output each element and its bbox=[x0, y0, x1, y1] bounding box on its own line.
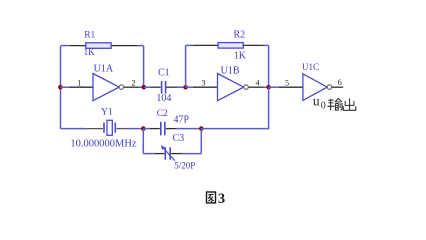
wire C2 left bbox=[143, 128, 160, 130]
op-amp U1A inverter bbox=[93, 74, 124, 101]
node C2 C3 right junction bbox=[199, 126, 204, 131]
svg-text:C3: C3 bbox=[173, 133, 185, 144]
svg-text:2: 2 bbox=[132, 79, 136, 88]
wire R1 top row bbox=[61, 45, 144, 47]
capacitor C1 bbox=[162, 81, 166, 94]
svg-text:5: 5 bbox=[285, 79, 289, 88]
svg-text:1K: 1K bbox=[234, 50, 247, 61]
wire feedback to U1B output bbox=[201, 87, 268, 128]
svg-text:C1: C1 bbox=[158, 68, 170, 79]
wire C3 bottom right bbox=[171, 153, 201, 155]
wire C3 loop right vertical bbox=[200, 129, 202, 154]
svg-text:1: 1 bbox=[77, 79, 81, 88]
svg-text:5/20P: 5/20P bbox=[174, 160, 195, 170]
svg-text:3: 3 bbox=[218, 191, 225, 207]
node pin1 junction bbox=[58, 85, 63, 90]
wire C3 bottom left bbox=[143, 153, 164, 155]
wire C2 right bbox=[166, 128, 202, 130]
wire into U1C pin 5 bbox=[269, 86, 303, 88]
wire R2 left vertical bbox=[185, 45, 187, 87]
wire R1 right vertical bbox=[143, 46, 145, 88]
wire U1C output pin 6 bbox=[332, 86, 343, 88]
node U1B output junction bbox=[266, 85, 271, 90]
svg-text:0: 0 bbox=[321, 100, 326, 111]
op-amp U1C inverter bbox=[303, 74, 332, 101]
wire R2 right vertical bbox=[268, 45, 270, 87]
svg-text:U1B: U1B bbox=[221, 65, 240, 76]
svg-text:3: 3 bbox=[202, 79, 206, 88]
wire into U1B pin 3 bbox=[186, 86, 218, 88]
resistor R1 bbox=[86, 43, 111, 49]
node U1A output junction bbox=[142, 85, 147, 90]
svg-text:U1C: U1C bbox=[302, 62, 319, 72]
wire R2 top row bbox=[186, 44, 269, 46]
svg-text:U1A: U1A bbox=[94, 63, 114, 74]
wire U1A output bbox=[124, 86, 144, 88]
svg-text:104: 104 bbox=[156, 93, 171, 104]
svg-text:u: u bbox=[313, 93, 320, 108]
svg-text:R2: R2 bbox=[234, 30, 246, 41]
svg-text:1K: 1K bbox=[84, 47, 96, 57]
svg-text:Y1: Y1 bbox=[101, 108, 113, 118]
wire U1B output bbox=[249, 86, 269, 88]
svg-text:6: 6 bbox=[338, 78, 342, 87]
wire crystal row bbox=[61, 128, 144, 130]
wire C1 left bbox=[144, 86, 161, 88]
svg-text:C2: C2 bbox=[157, 109, 168, 119]
svg-text:47P: 47P bbox=[174, 114, 190, 125]
resistor R2 bbox=[218, 43, 243, 49]
wire C3 loop left vertical bbox=[142, 129, 144, 154]
wire into U1A pin 1 bbox=[60, 86, 93, 88]
node U1B input junction bbox=[183, 85, 188, 90]
label u0 output bbox=[313, 93, 326, 111]
wire left vertical net A bbox=[60, 46, 62, 129]
svg-text:R1: R1 bbox=[84, 31, 95, 41]
node crystal C2 junction bbox=[141, 126, 146, 131]
wire C1 right bbox=[167, 86, 186, 88]
label 输出 output text bbox=[327, 98, 355, 110]
svg-text:10.000000MHz: 10.000000MHz bbox=[70, 138, 137, 149]
op-amp U1B inverter bbox=[218, 74, 249, 101]
svg-text:4: 4 bbox=[256, 79, 260, 88]
caption figure 3 bbox=[207, 191, 226, 207]
capacitor C2 bbox=[161, 122, 165, 136]
crystal Y1 bbox=[104, 120, 115, 135]
capacitor C3 variable bbox=[161, 145, 175, 160]
